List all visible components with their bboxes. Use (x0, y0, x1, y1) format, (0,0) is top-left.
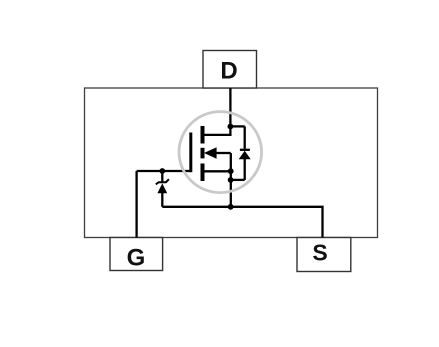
svg-text:G: G (127, 245, 146, 272)
svg-text:S: S (312, 240, 327, 266)
svg-text:D: D (220, 58, 237, 85)
